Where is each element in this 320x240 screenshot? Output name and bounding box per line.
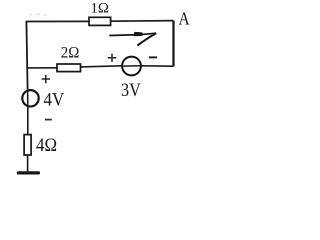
resistor R3 4ohm <box>24 135 57 156</box>
wire left vertical upper <box>26 21 27 90</box>
voltage source V1 4V circle <box>22 90 38 106</box>
wire middle horizontal right <box>142 65 174 67</box>
resistor R2 2ohm <box>57 45 81 72</box>
voltage source V2 3V value label <box>121 80 141 101</box>
wire top-right horizontal <box>111 20 174 23</box>
svg-text:A: A <box>179 9 190 29</box>
svg-text:2Ω: 2Ω <box>61 45 80 62</box>
voltage source V1 4V value label <box>44 90 65 111</box>
wire to ground bar <box>27 156 29 172</box>
svg-text:3V: 3V <box>121 80 141 101</box>
wire top-left horizontal <box>26 20 89 22</box>
current arrow shaft <box>109 34 143 37</box>
node A label <box>179 9 190 29</box>
svg-text:1Ω: 1Ω <box>90 1 109 17</box>
voltage source V2 3V minus sign <box>149 56 157 58</box>
svg-text:4V: 4V <box>44 90 65 111</box>
svg-text:4Ω: 4Ω <box>36 135 57 156</box>
voltage source V1 4V plus sign <box>42 75 50 83</box>
voltage source V2 3V plus sign <box>108 54 116 62</box>
wire middle horizontal center <box>81 66 122 67</box>
wire middle horizontal left <box>27 67 57 69</box>
resistor R1 1ohm <box>89 1 111 26</box>
wire right vertical <box>172 21 174 67</box>
ground terminal bar <box>17 171 40 174</box>
scan noise specks <box>29 13 46 16</box>
wire through 4V source <box>27 89 29 107</box>
voltage source V1 4V minus sign <box>45 119 52 121</box>
current arrow lower barb <box>137 33 156 45</box>
current arrow head upper barb <box>134 32 156 36</box>
wire left vertical lower <box>27 107 29 134</box>
voltage source V2 3V circle <box>122 57 142 76</box>
